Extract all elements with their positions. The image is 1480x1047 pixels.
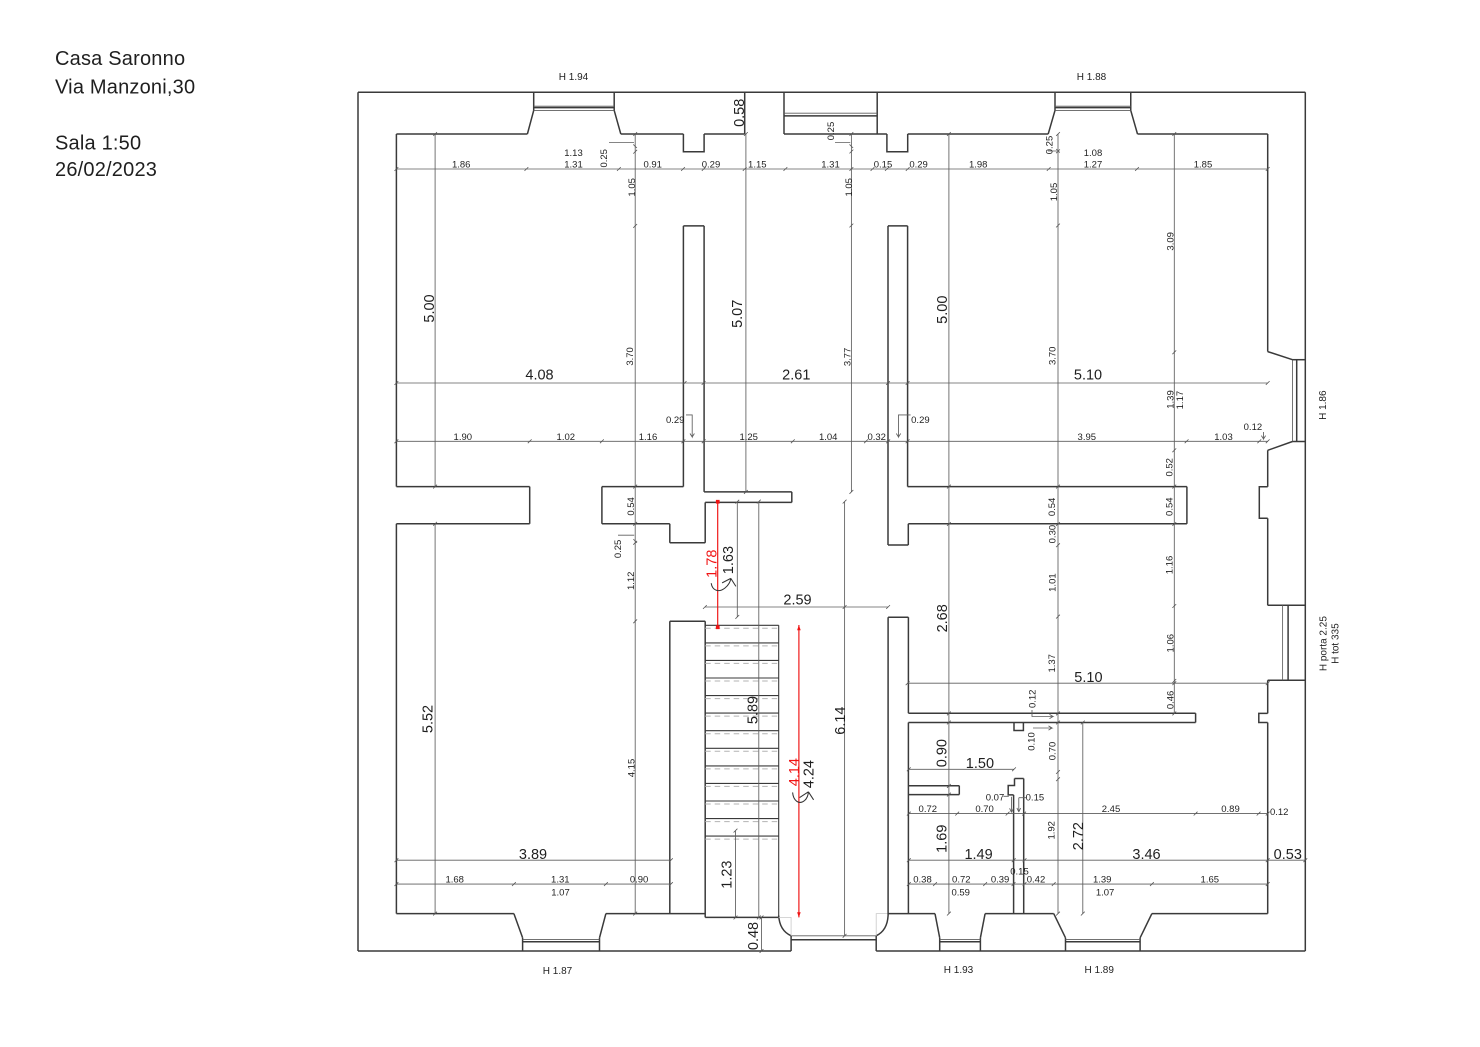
svg-text:3.77: 3.77 [842,348,853,367]
vertical dim chain x=1058 [1057,134,1059,914]
svg-text:3.70: 3.70 [1048,347,1059,366]
svg-text:1.08: 1.08 [1084,148,1103,159]
svg-text:0.25: 0.25 [613,540,624,559]
svg-text:0.38: 0.38 [913,875,932,886]
leader 0.25 band [618,535,637,543]
svg-text:1.23: 1.23 [720,860,736,888]
top wall inner face seg1 [396,133,527,135]
svg-text:1.13: 1.13 [564,148,583,159]
leader 0.25 right [1048,149,1060,153]
svg-text:0.39: 0.39 [991,875,1010,886]
vertical dim 6.14 x=844.6 [844,502,846,936]
pilaster P2 [887,134,908,152]
svg-text:H 1.89: H 1.89 [1084,965,1114,976]
svg-text:0.07: 0.07 [986,793,1005,804]
svg-text:4.14: 4.14 [787,758,803,786]
right wall inner face seg4 [1267,680,1269,713]
svg-text:1.85: 1.85 [1194,160,1213,171]
right wall inner face seg5 [1267,723,1269,914]
svg-text:H tot 335: H tot 335 [1331,623,1342,664]
stair top wall [669,524,671,543]
bottom wall inner face seg1 [396,913,514,915]
svg-text:0.90: 0.90 [935,739,951,767]
hook arrow stairs bottom [793,792,814,803]
svg-text:2.45: 2.45 [1102,804,1121,815]
svg-text:1.05: 1.05 [844,178,855,197]
svg-text:0.90: 0.90 [630,875,649,886]
svg-text:1.07: 1.07 [1096,888,1115,899]
svg-text:0.54: 0.54 [1047,498,1058,517]
svg-text:H 1.86: H 1.86 [1318,390,1329,420]
svg-text:1.07: 1.07 [551,888,570,899]
svg-text:1.16: 1.16 [1164,556,1175,575]
svg-text:0.32: 0.32 [867,432,886,443]
left wall inner face upper [395,134,397,487]
vertical dim 5.00/5.52 x=435.1 [434,134,436,487]
svg-text:H 1.94: H 1.94 [559,72,589,83]
svg-text:0.29: 0.29 [666,415,685,426]
svg-text:0.12: 0.12 [1270,807,1289,818]
svg-text:0.89: 0.89 [1221,804,1240,815]
svg-text:4.24: 4.24 [801,760,817,788]
svg-text:1.31: 1.31 [564,160,583,171]
bottom wall inner face seg5 [1152,913,1268,915]
svg-text:0.48: 0.48 [746,922,762,950]
stair left wall block [669,621,671,913]
bottom wall inner face seg2 [606,913,705,915]
svg-text:0.29: 0.29 [911,415,930,426]
svg-text:0.15: 0.15 [874,160,893,171]
jamb stub below thin wall [1014,723,1023,731]
svg-text:H porta 2.25: H porta 2.25 [1318,616,1329,671]
svg-text:1.25: 1.25 [739,432,758,443]
leader 0.12 right window [1261,432,1265,439]
leader 0.25 mid [835,143,853,149]
entrance door opening [791,935,876,937]
small room strip wall [908,785,959,787]
bottom wall inner face seg4 [985,913,1054,915]
svg-text:1.05: 1.05 [1049,183,1060,202]
dim line chain y=169 [396,168,1267,170]
partition wall bottom rooms [1013,795,1015,914]
vertical dim chain x=851.4 [850,134,852,492]
dim line y=383 [396,382,1267,384]
svg-text:0.46: 0.46 [1166,691,1177,710]
svg-text:2.61: 2.61 [782,368,810,384]
svg-text:3.09: 3.09 [1166,232,1177,251]
svg-text:1.63: 1.63 [721,546,737,574]
svg-text:0.54: 0.54 [626,497,637,516]
top wall inner face seg6 [1138,133,1268,135]
window H 1.89 bottom [1054,914,1066,938]
entrance left fillet [779,916,791,936]
svg-text:0.72: 0.72 [919,804,938,815]
svg-text:0.25: 0.25 [599,149,610,168]
svg-text:3.95: 3.95 [1078,432,1097,443]
svg-text:1.05: 1.05 [627,178,638,197]
svg-text:0.58: 0.58 [732,99,748,127]
window H 1.88 top [1054,92,1056,110]
svg-text:0.25: 0.25 [1045,136,1056,155]
entrance right fillet [876,916,888,936]
svg-text:1.31: 1.31 [821,160,840,171]
window H 1.87 bottom [514,914,523,938]
window H 1.93 bottom [935,914,940,938]
svg-text:1.31: 1.31 [551,875,570,886]
dim line y=813.6 [909,813,1268,815]
svg-text:0.12: 0.12 [1244,422,1263,433]
leader 0.07 / 0.15 door [1003,796,1013,812]
dim line y=441.3 [396,440,1267,442]
left wall inner face lower [395,524,397,914]
top wall opening 0.58 [744,92,746,134]
red dim 1.78 [717,502,719,629]
svg-text:H 1.93: H 1.93 [944,965,974,976]
svg-text:0.70: 0.70 [975,804,994,815]
interior wall W2 [887,226,889,545]
svg-text:2.59: 2.59 [783,593,811,609]
svg-text:1.17: 1.17 [1175,391,1186,410]
entrance jamb reveals [779,914,888,936]
svg-text:1.27: 1.27 [1084,160,1103,171]
svg-text:1.86: 1.86 [452,160,471,171]
svg-text:1.90: 1.90 [454,432,473,443]
svg-text:1.16: 1.16 [639,432,658,443]
window H 1.86 right [1268,352,1293,360]
svg-text:5.89: 5.89 [745,696,761,724]
svg-text:1.01: 1.01 [1048,573,1059,592]
red dim 4.14 [798,625,800,917]
svg-text:1.65: 1.65 [1201,875,1220,886]
leader 0.29 right [896,415,910,437]
right wall niche upper [1259,487,1267,519]
outer wall bottom edge right of entrance [876,950,1305,952]
svg-text:0.30: 0.30 [1048,525,1059,544]
right wall inner face seg3 [1267,518,1269,605]
svg-text:5.10: 5.10 [1074,368,1102,384]
svg-text:0.29: 0.29 [702,160,721,171]
wall band right [908,486,1187,488]
leader 0.10 [1033,726,1052,730]
outer wall right edge [1304,92,1306,951]
outer wall left edge [357,92,359,951]
svg-text:1.68: 1.68 [445,875,464,886]
svg-text:0.42: 0.42 [1027,875,1046,886]
outer wall bottom edge left of entrance [358,950,791,952]
svg-text:0.54: 0.54 [1164,497,1175,516]
right wall niche lower [1259,713,1268,722]
svg-text:26/02/2023: 26/02/2023 [55,159,157,181]
svg-text:1.92: 1.92 [1047,821,1058,840]
top wall inner face seg3 [704,133,745,135]
dim line y=860.2 [396,859,671,861]
svg-text:H 1.88: H 1.88 [1077,72,1107,83]
dim line 1.50 y=769.3 [909,768,1014,770]
svg-text:1.69: 1.69 [935,825,951,853]
pilaster P1 [683,134,704,152]
top wall inner face seg5 [908,133,1048,135]
vertical dim 1.23 x=735.5 [735,831,737,918]
svg-text:1.49: 1.49 [964,847,992,863]
svg-text:1.37: 1.37 [1047,654,1058,673]
svg-text:2.68: 2.68 [935,604,951,632]
stairwell bottom face [705,916,779,918]
svg-text:1.78: 1.78 [705,550,721,578]
svg-text:5.07: 5.07 [730,300,746,328]
svg-text:5.00: 5.00 [935,296,951,324]
svg-text:0.15: 0.15 [1026,793,1045,804]
bottom wall inner face seg3 [888,913,935,915]
svg-text:1.02: 1.02 [557,432,576,443]
vertical dim chain x=1174.3 [1173,134,1175,713]
svg-text:0.15: 0.15 [1010,867,1029,878]
svg-text:3.70: 3.70 [625,347,636,366]
outer wall top edge [358,91,1305,93]
dim line 2.59 y=607 [705,606,888,608]
partition jamb step [1008,779,1014,795]
svg-text:3.89: 3.89 [519,847,547,863]
svg-text:6.14: 6.14 [833,706,849,734]
svg-text:0.59: 0.59 [951,888,970,899]
right wall inner face seg2 [1267,450,1269,487]
interior wall W1 [682,226,684,487]
svg-text:0.72: 0.72 [952,875,971,886]
svg-text:0.12: 0.12 [1027,690,1038,709]
vertical dim 5.89 x=758.8 [758,502,760,918]
right wall inner face seg1 [1267,134,1269,352]
stair treads right edge [778,625,780,915]
svg-text:0.29: 0.29 [909,160,928,171]
svg-text:1.06: 1.06 [1166,634,1177,653]
svg-text:0.52: 0.52 [1164,458,1175,477]
vertical dim chain x=635.2 [634,134,636,914]
svg-text:4.08: 4.08 [525,368,553,384]
svg-text:1.39: 1.39 [1093,875,1112,886]
vertical dim chain x=948.9 [948,134,950,914]
window H 1.94 top [533,92,535,110]
dim line 5.10 y=683.2 [908,682,1268,684]
hook arrow stairs top [711,578,736,590]
svg-text:0.91: 0.91 [643,160,662,171]
svg-text:Casa Saronno: Casa Saronno [55,48,185,70]
svg-text:1.98: 1.98 [969,160,988,171]
svg-text:5.00: 5.00 [422,294,438,322]
svg-text:5.10: 5.10 [1074,670,1102,686]
svg-text:2.72: 2.72 [1071,822,1087,850]
svg-text:1.03: 1.03 [1214,432,1233,443]
svg-text:1.12: 1.12 [626,572,637,591]
window H porta 2.25 right [1268,604,1306,606]
svg-text:Sala 1:50: Sala 1:50 [55,132,141,154]
leader 0.12 thin wall [1032,710,1053,719]
svg-text:1.50: 1.50 [966,756,994,772]
vertical dim 2.72 x=1082.8 [1082,723,1084,914]
svg-text:0.70: 0.70 [1048,742,1059,761]
svg-text:0.53: 0.53 [1274,847,1302,863]
hall east wall [887,617,889,915]
svg-text:H 1.87: H 1.87 [543,966,573,977]
leader 0.25 left [609,143,637,149]
wall band left [396,486,529,488]
vertical dim 5.07 x=745.9 [745,134,747,492]
svg-text:Via Manzoni,30: Via Manzoni,30 [55,77,195,99]
dim line y=884.1 [396,883,671,885]
top wall inner face seg2 [621,133,684,135]
svg-text:5.52: 5.52 [421,705,437,733]
vertical dim 1.63 x=737.3 [736,502,738,617]
top wall inner face seg4 [784,133,887,135]
svg-text:1.04: 1.04 [819,432,838,443]
stair treads [705,625,779,836]
leader 0.29 left [686,415,694,437]
svg-text:1.15: 1.15 [748,160,767,171]
window C flush box [876,92,878,134]
thin wall 0.12 [908,712,1195,714]
svg-text:3.46: 3.46 [1132,847,1160,863]
svg-text:0.25: 0.25 [826,122,837,141]
svg-text:0.10: 0.10 [1027,732,1038,751]
svg-text:4.15: 4.15 [627,759,638,778]
vertical dim 0.48 x=761.5 [761,917,763,951]
